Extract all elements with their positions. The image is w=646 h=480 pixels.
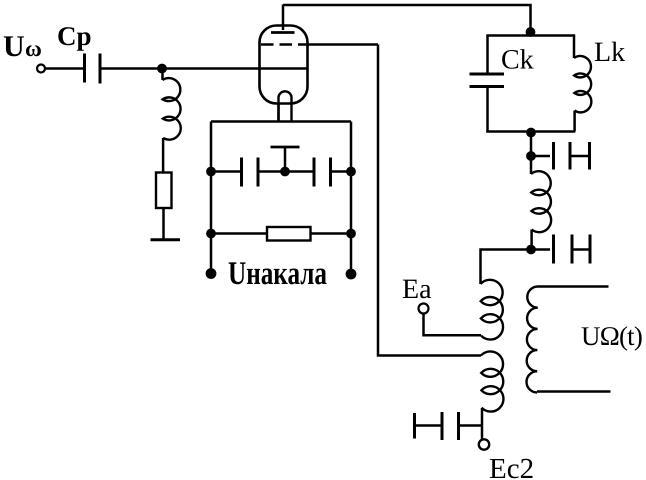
svg-text:UΩ(t): UΩ(t) bbox=[581, 321, 642, 351]
node tank top bbox=[526, 27, 536, 37]
node left res row bbox=[206, 229, 216, 239]
wire grid to right bbox=[306, 43, 378, 46]
node right cap row bbox=[346, 167, 356, 177]
wire bbox=[162, 138, 165, 173]
node grid junction bbox=[157, 64, 167, 74]
capacitor Ck bbox=[470, 74, 505, 87]
capacitor Cp bbox=[85, 54, 101, 84]
wire Ea bbox=[424, 314, 482, 336]
wire tank bottom bbox=[486, 130, 575, 133]
svg-text:Ck: Ck bbox=[501, 45, 534, 76]
tube cathode bbox=[279, 91, 292, 121]
wire bbox=[162, 208, 165, 239]
tube anode plate bbox=[271, 31, 295, 34]
wire bbox=[161, 69, 164, 81]
wire bbox=[530, 156, 533, 174]
node right res row bbox=[346, 229, 356, 239]
svg-text:Ea: Ea bbox=[402, 274, 432, 305]
label Uomega(t) bbox=[581, 321, 642, 351]
terminal filament right bbox=[346, 269, 357, 280]
capacitor C5 bbox=[531, 235, 590, 264]
wire tank top bbox=[486, 34, 575, 37]
capacitor C1 bbox=[211, 158, 285, 187]
terminal Ea bbox=[419, 304, 429, 314]
node tank bottom bbox=[526, 128, 536, 138]
transformer secondary bbox=[526, 286, 538, 392]
wire to transformer bbox=[481, 250, 532, 285]
tube grid (dashed) bbox=[261, 43, 306, 45]
svg-text:Lk: Lk bbox=[594, 37, 625, 68]
svg-text:U: U bbox=[3, 30, 25, 63]
svg-text:Uнакала: Uнакала bbox=[228, 256, 327, 292]
node left cap row bbox=[206, 167, 216, 177]
wire filament right bbox=[350, 122, 353, 275]
resistor R2 bbox=[211, 227, 351, 241]
wire bbox=[481, 408, 484, 440]
wire filament box top bbox=[211, 120, 351, 123]
resistor R1 bbox=[156, 173, 172, 209]
capacitor C4 bbox=[415, 412, 483, 440]
wire cathode left leg bbox=[277, 103, 280, 122]
label Uomega bbox=[3, 30, 42, 63]
wire bbox=[45, 67, 83, 70]
wire secondary top bbox=[538, 285, 609, 288]
inductor L1 bbox=[163, 78, 181, 140]
capacitor C3 bbox=[531, 142, 590, 170]
wire tank right upper bbox=[573, 36, 576, 59]
svg-text:ω: ω bbox=[25, 36, 42, 61]
wire bbox=[530, 132, 533, 157]
wire filament left bbox=[210, 122, 213, 274]
ground bbox=[151, 238, 181, 241]
svg-text:Cp: Cp bbox=[57, 21, 92, 51]
node cathode tap bbox=[280, 167, 290, 177]
node C3 tap bbox=[526, 151, 536, 161]
terminal filament left bbox=[206, 268, 217, 279]
wire tank left lower bbox=[486, 87, 489, 133]
inductor Lk bbox=[574, 56, 591, 112]
input terminal Uomega bbox=[37, 65, 45, 73]
wire tank right lower bbox=[573, 111, 576, 132]
wire grid line down bbox=[378, 45, 481, 356]
capacitor C2 bbox=[285, 158, 351, 187]
wire anode lead bbox=[282, 5, 285, 31]
transformer primary upper bbox=[481, 280, 504, 340]
wire secondary bottom bbox=[537, 390, 611, 393]
cathode tap stub bbox=[271, 147, 300, 172]
wire grid input bbox=[102, 67, 308, 70]
wire anode top bus bbox=[283, 5, 531, 34]
inductor L2 bbox=[531, 171, 551, 232]
vacuum tube envelope bbox=[260, 26, 308, 104]
wire bbox=[530, 230, 533, 250]
terminal Ec2 bbox=[479, 439, 489, 449]
wire tank left upper bbox=[486, 36, 489, 75]
node C5 tap bbox=[526, 245, 536, 255]
transformer primary lower bbox=[481, 351, 503, 411]
svg-text:Ec2: Ec2 bbox=[489, 453, 534, 480]
